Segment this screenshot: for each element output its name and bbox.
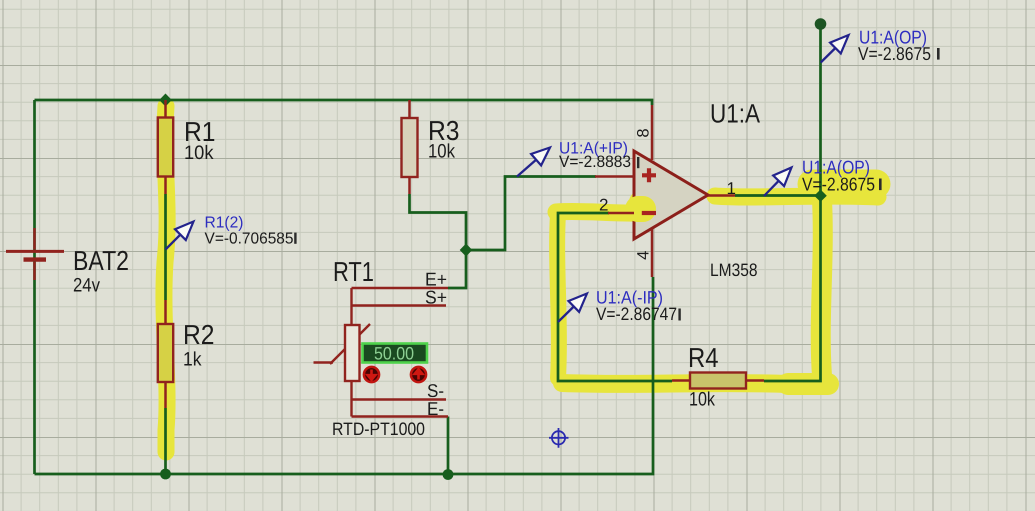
battery BAT2 — [6, 228, 64, 280]
junction node R2 / bottom rail — [160, 469, 171, 480]
RTD RT1 — [314, 288, 449, 417]
origin marker — [549, 428, 569, 448]
svg-text:U1:A: U1:A — [710, 99, 760, 129]
highlighter stroke over R1/R2 branch — [164, 106, 878, 452]
probe U1:A(+IP) — [517, 140, 639, 177]
wire: left rail (battery branch) — [33, 100, 36, 474]
probe R1(2) — [166, 215, 297, 250]
highlighter blob over op-amp minus input — [638, 196, 643, 222]
svg-text:V=-2.86747: V=-2.86747 — [596, 304, 677, 324]
junction node at output — [814, 190, 827, 202]
junction node RT1 E- / bottom rail — [443, 469, 454, 480]
pin 4 stub — [651, 229, 654, 277]
junction node R3/RT1/op-amp — [460, 244, 473, 257]
op-amp U1:A — [595, 105, 735, 277]
svg-text:1k: 1k — [183, 349, 202, 371]
junction node at R1 top — [159, 94, 172, 107]
wire: op-amp -input to feedback loop and R4 left — [558, 213, 672, 381]
rtd diagonal — [330, 324, 370, 364]
svg-text:RTD-PT1000: RTD-PT1000 — [332, 419, 425, 439]
minus mark — [642, 211, 656, 215]
wire: R4 right to output vertical — [764, 196, 821, 381]
svg-text:R4: R4 — [688, 342, 719, 373]
svg-text:8: 8 — [634, 128, 652, 137]
resistor R3 — [402, 100, 418, 194]
wire: output to top terminal — [735, 23, 821, 196]
wire: R2 bottom to bottom rail — [164, 408, 167, 474]
svg-text:V=-0.706585: V=-0.706585 — [205, 231, 294, 248]
probe U1:A(OP) at output — [764, 157, 882, 197]
RT1 down button — [364, 367, 379, 382]
wire: top rail from battery + to op-amp pin 8 — [35, 100, 653, 105]
svg-text:V=-2.8675: V=-2.8675 — [858, 43, 931, 64]
svg-text:BAT2: BAT2 — [73, 245, 129, 276]
resistor R4 — [672, 373, 764, 389]
rtd top pin bus — [350, 288, 352, 325]
pin 1 output stub — [708, 194, 735, 197]
svg-text:10k: 10k — [689, 389, 715, 411]
rtd body — [345, 325, 360, 381]
rtd left foot lead — [314, 361, 334, 363]
svg-text:10k: 10k — [184, 142, 214, 164]
svg-text:LM358: LM358 — [710, 260, 758, 280]
RT1 value display 50.00 — [363, 344, 428, 364]
svg-text:4: 4 — [634, 251, 652, 260]
resistor R1 — [158, 100, 173, 194]
plus mark — [642, 168, 656, 182]
wire: R3 bottom to node and RT1 E+ — [410, 194, 467, 288]
svg-text:E-: E- — [427, 398, 444, 419]
wire: RT1 E- to bottom rail — [447, 417, 450, 475]
pin E+ — [352, 287, 449, 289]
svg-text:50.00: 50.00 — [374, 344, 414, 364]
probe U1:A(OP) top — [821, 27, 940, 65]
pin E- — [352, 415, 449, 417]
svg-text:1: 1 — [727, 179, 736, 198]
pin S+ — [352, 304, 447, 306]
svg-text:V=-2.8883: V=-2.8883 — [559, 153, 631, 171]
svg-text:V=-2.8675: V=-2.8675 — [802, 174, 875, 195]
wire: node to op-amp +input — [466, 177, 596, 251]
pin 2 stub — [608, 212, 634, 215]
RT1 up button — [411, 367, 426, 382]
probe U1:A(-IP) — [558, 288, 681, 325]
svg-text:RT1: RT1 — [333, 256, 374, 287]
svg-text:R2: R2 — [183, 319, 215, 350]
svg-text:S+: S+ — [425, 287, 447, 308]
pin S- — [352, 398, 447, 400]
resistor R2 — [158, 300, 173, 408]
pin 8 stub — [651, 105, 654, 160]
svg-text:24v: 24v — [73, 275, 100, 297]
wire: R1 bottom to R2 top — [164, 194, 167, 300]
svg-text:10k: 10k — [428, 141, 455, 163]
wire: bottom rail to op-amp pin 4 — [35, 277, 654, 474]
highlighter stroke over pin2 / feedback loop — [556, 211, 640, 213]
highlighter stroke over output wire — [715, 196, 878, 197]
svg-text:2: 2 — [599, 196, 608, 215]
highlighter blob under V=-2.8675 text — [812, 170, 876, 199]
terminal dot at top of output wire — [815, 18, 827, 30]
pin 3 stub — [595, 175, 634, 178]
svg-text:R1(2): R1(2) — [205, 215, 244, 232]
rtd bottom pin bus — [350, 381, 352, 417]
